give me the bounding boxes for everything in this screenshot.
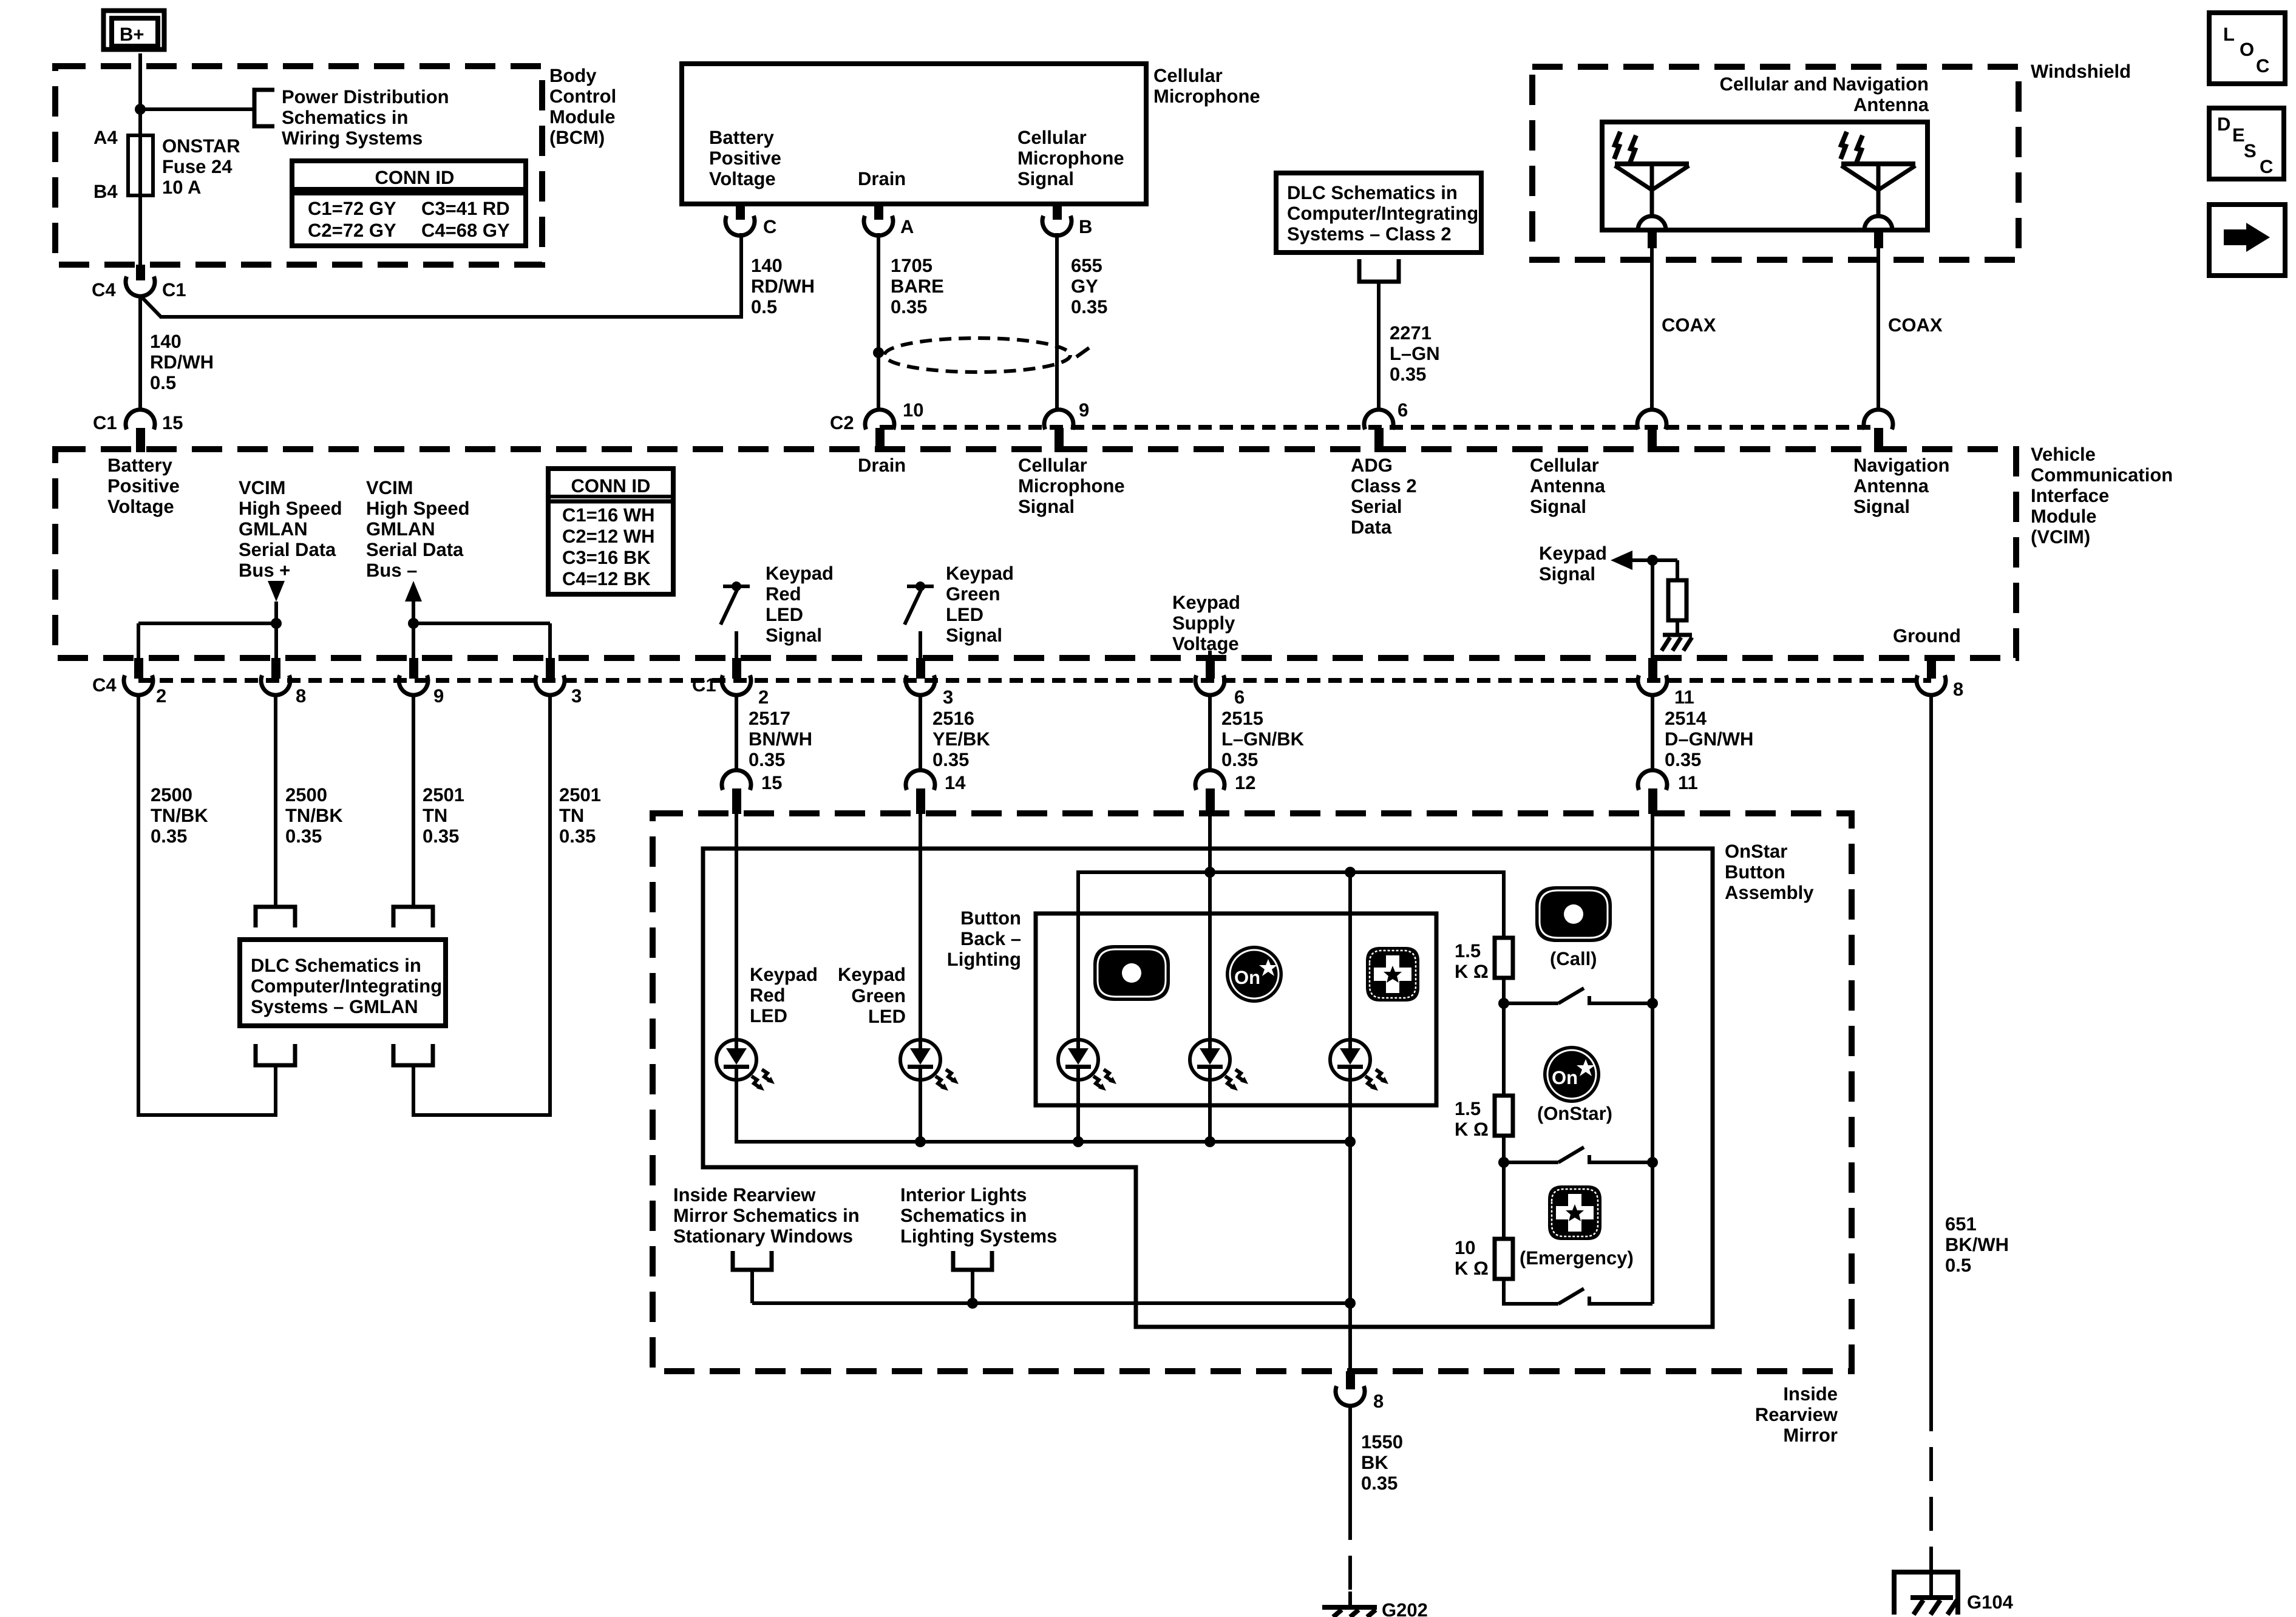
harness dotted line VCIM bottom row (138, 678, 1931, 683)
svg-text:2: 2 (758, 686, 769, 708)
exit bracket DLC gmlan right (393, 1044, 433, 1065)
svg-text:0.5: 0.5 (751, 296, 777, 317)
svg-text:C4: C4 (92, 279, 116, 300)
wire ADG class 2 serial data (1377, 282, 1381, 411)
svg-text:1.5: 1.5 (1455, 1098, 1481, 1119)
svg-text:140: 140 (150, 331, 182, 352)
junction dot backlight right (1345, 867, 1356, 878)
svg-text:VCIM: VCIM (239, 477, 286, 498)
connector pin 14 mirror (906, 770, 935, 814)
wire 2500 TN/BK pin8 (274, 694, 277, 907)
connector pin 9 (bus minus) (399, 658, 428, 695)
keypad signal arrow (1611, 551, 1632, 570)
svg-text:Antenna: Antenna (1853, 475, 1929, 497)
wire backlight LED returns (1078, 1080, 1350, 1142)
wire mirror schematics exit (750, 1270, 754, 1303)
VCIM dashed box (55, 449, 2016, 658)
junction dot onstar common (1647, 1157, 1658, 1168)
svg-text:0.35: 0.35 (151, 825, 187, 847)
svg-text:CONN ID: CONN ID (571, 475, 651, 497)
svg-text:Signal: Signal (1853, 496, 1910, 517)
wire 2501 TN pin9 (412, 694, 415, 907)
call button icon (1535, 886, 1612, 942)
svg-text:Signal: Signal (1017, 168, 1074, 189)
svg-text:10: 10 (1455, 1237, 1475, 1258)
wire onstar node to R3 (1502, 1162, 1506, 1239)
svg-text:Keypad: Keypad (766, 563, 834, 584)
button back lighting box (1036, 914, 1436, 1105)
svg-text:Computer/Integrating: Computer/Integrating (251, 975, 442, 997)
backlight onstar button icon (1226, 946, 1283, 1003)
wire keypad signal (1632, 560, 1677, 658)
junction dot interior lights (967, 1298, 978, 1309)
wire label 2501 TN 0.35 (pin9) (423, 784, 464, 847)
svg-text:C4=68 GY: C4=68 GY (421, 220, 510, 241)
svg-text:B: B (1079, 216, 1092, 237)
svg-text:Keypad: Keypad (1539, 543, 1607, 564)
svg-text:Bus +: Bus + (239, 560, 290, 581)
svg-text:C1: C1 (93, 412, 117, 433)
svg-text:ONSTAR: ONSTAR (162, 135, 240, 157)
svg-text:1.5: 1.5 (1455, 940, 1481, 961)
svg-text:Signal: Signal (1539, 563, 1595, 585)
wire label 2516 YE/BK 0.35 (932, 708, 990, 770)
label Cellular Antenna Signal (1530, 455, 1606, 517)
junction dot drain shield (873, 347, 884, 358)
onstar switch (1504, 1147, 1652, 1162)
wire label 1705 BARE 0.35 (891, 255, 944, 317)
svg-text:Inside: Inside (1783, 1383, 1838, 1405)
wire feed to microphone pin C (160, 233, 741, 317)
svg-text:C4=12 BK: C4=12 BK (562, 568, 651, 589)
wire coax navigation (1877, 248, 1880, 411)
wire keypad green LED feed (919, 813, 922, 1040)
svg-text:K Ω: K Ω (1455, 1258, 1489, 1279)
svg-text:K Ω: K Ω (1455, 1119, 1489, 1140)
svg-text:BK/WH: BK/WH (1945, 1234, 2009, 1255)
DLC Schematics Class 2 box (1276, 173, 1481, 253)
label 1.5 K ohm (onstar) (1455, 1098, 1489, 1140)
svg-text:Serial: Serial (1351, 496, 1402, 517)
svg-text:A: A (900, 216, 914, 237)
label Power Distribution Schematics in Wiring Systems (282, 86, 449, 149)
svg-text:15: 15 (162, 412, 183, 433)
wire mic signal 655 GY (1055, 233, 1059, 411)
svg-text:DLC Schematics in: DLC Schematics in (1287, 182, 1458, 203)
wire down to VCIM pin 15 (138, 296, 142, 411)
svg-text:C: C (2256, 55, 2269, 76)
svg-text:Interface: Interface (2031, 485, 2109, 506)
label ADG Class 2 Serial Data (1351, 455, 1417, 538)
connector pin C microphone (725, 204, 755, 236)
svg-text:Battery: Battery (709, 127, 775, 148)
svg-text:LED: LED (946, 604, 983, 625)
ground G104 (1894, 1572, 1958, 1615)
label Navigation Antenna Signal (1853, 455, 1949, 517)
wire bus plus (274, 602, 278, 658)
emergency switch (1558, 1289, 1652, 1304)
svg-text:Lighting: Lighting (947, 949, 1021, 970)
backlight feed bus (1078, 872, 1504, 1040)
svg-text:Red: Red (750, 985, 786, 1006)
svg-text:TN: TN (559, 805, 584, 826)
svg-text:DLC Schematics in: DLC Schematics in (251, 955, 421, 976)
svg-text:0.35: 0.35 (749, 749, 785, 770)
label Battery Positive Voltage (VCIM) (107, 455, 180, 517)
wire keypad supply stubby (1208, 651, 1212, 658)
connector coax navigation VCIM (1864, 410, 1893, 452)
svg-text:G202: G202 (1382, 1599, 1428, 1617)
wire label 140 RD/WH 0.5 (mic feed) (751, 255, 815, 317)
label Vehicle Communication Interface Module VCIM (2031, 444, 2173, 547)
label Inside Rearview Mirror Schematics in Stationary Windows (673, 1184, 860, 1247)
svg-text:Supply: Supply (1172, 612, 1235, 634)
svg-text:Keypad: Keypad (1172, 592, 1240, 613)
wire keypad red to border (735, 631, 738, 658)
svg-text:6: 6 (1398, 399, 1408, 421)
svg-text:11: 11 (1674, 686, 1694, 708)
svg-text:Signal: Signal (766, 625, 822, 646)
junction dot onstar node (1498, 1157, 1509, 1168)
svg-text:Keypad: Keypad (838, 964, 906, 985)
svg-text:(BCM): (BCM) (549, 127, 605, 148)
svg-text:LED: LED (750, 1005, 787, 1026)
svg-text:C2=12 WH: C2=12 WH (562, 526, 654, 547)
svg-text:B+: B+ (120, 24, 144, 45)
entry bracket DLC gmlan left (256, 907, 295, 927)
svg-text:RD/WH: RD/WH (751, 276, 815, 297)
exit bracket mirror schematics (733, 1251, 772, 1270)
connector pin 11 mirror (1638, 770, 1667, 814)
wire keypad green to border (919, 631, 922, 658)
svg-text:Microphone: Microphone (1018, 475, 1125, 497)
keypad green LED driver switch (905, 581, 934, 625)
svg-text:C: C (763, 216, 776, 237)
exit bracket DLC class2 (1359, 259, 1399, 282)
wire label 1550 BK 0.35 (1361, 1431, 1403, 1494)
backlight call button icon (1093, 945, 1170, 1001)
LED backlight onstar (1190, 1040, 1248, 1091)
svg-text:S: S (2244, 140, 2257, 161)
svg-text:15: 15 (761, 772, 782, 793)
svg-text:0.35: 0.35 (1665, 749, 1701, 770)
svg-text:Serial Data: Serial Data (366, 539, 464, 560)
junction dot B+ node (135, 104, 146, 115)
wire bus minus (412, 602, 415, 658)
connector pin 15 mirror (722, 770, 751, 814)
cellular microphone box (682, 64, 1146, 204)
LOC nav box (2209, 13, 2285, 84)
svg-text:0.5: 0.5 (1945, 1255, 1971, 1276)
svg-text:Cellular and Navigation: Cellular and Navigation (1719, 73, 1929, 95)
svg-text:2500: 2500 (151, 784, 192, 805)
svg-text:L–GN/BK: L–GN/BK (1221, 728, 1305, 750)
svg-text:GMLAN: GMLAN (239, 518, 308, 540)
junction dot call common (1647, 998, 1658, 1009)
cellular and navigation antenna box (1602, 122, 1927, 230)
svg-text:A4: A4 (93, 127, 118, 148)
wire bus minus branch (413, 623, 550, 658)
svg-text:Schematics in: Schematics in (282, 107, 408, 128)
svg-text:0.35: 0.35 (932, 749, 969, 770)
svg-text:Drain: Drain (858, 455, 906, 476)
CONN ID table VCIM (548, 469, 673, 594)
svg-text:Back –: Back – (960, 928, 1021, 949)
svg-text:Inside Rearview: Inside Rearview (673, 1184, 816, 1205)
svg-text:Cellular: Cellular (1018, 455, 1087, 476)
label VCIM GMLAN Bus minus (366, 477, 470, 581)
label Cellular Microphone Signal (VCIM) (1018, 455, 1125, 517)
svg-text:10: 10 (903, 399, 923, 421)
svg-text:Windshield: Windshield (2031, 61, 2131, 82)
shield ellipse around drain and mic wires (885, 338, 1070, 372)
svg-text:11: 11 (1678, 772, 1698, 793)
wire 2515 L-GN/BK (1208, 694, 1212, 771)
svg-text:8: 8 (296, 685, 306, 707)
svg-text:(Call): (Call) (1550, 948, 1597, 969)
wire label 2501 TN 0.35 (pin3) (559, 784, 601, 847)
label OnStar Button Assembly (1725, 841, 1814, 903)
label Cellular and Navigation Antenna (1719, 73, 1929, 115)
svg-text:High Speed: High Speed (366, 498, 470, 519)
svg-text:1705: 1705 (891, 255, 932, 276)
junction dot keypad signal (1647, 555, 1658, 566)
svg-text:E: E (2232, 124, 2245, 146)
svg-text:D–GN/WH: D–GN/WH (1665, 728, 1753, 750)
connector pin 8 (bus plus) (261, 658, 290, 695)
call switch (1504, 988, 1652, 1003)
svg-text:Voltage: Voltage (107, 496, 174, 517)
LED return bus (736, 1080, 1350, 1303)
label Cellular Microphone (1153, 65, 1260, 107)
svg-text:Navigation: Navigation (1853, 455, 1949, 476)
svg-text:BARE: BARE (891, 276, 944, 297)
svg-text:6: 6 (1234, 686, 1245, 708)
svg-text:1550: 1550 (1361, 1431, 1403, 1453)
windshield dashed box (1532, 67, 2019, 260)
svg-text:Keypad: Keypad (750, 964, 818, 985)
svg-text:Voltage: Voltage (1172, 633, 1239, 654)
junction dot backlight mid (1204, 867, 1215, 878)
connector pin 3 keypad green (906, 658, 935, 695)
svg-text:High Speed: High Speed (239, 498, 342, 519)
svg-text:ADG: ADG (1351, 455, 1393, 476)
svg-text:G104: G104 (1967, 1592, 2014, 1613)
wire label 2271 L-GN 0.35 (1390, 322, 1440, 385)
svg-text:C: C (2260, 156, 2273, 177)
label Keypad Red LED (assembly) (750, 964, 818, 1026)
svg-text:Ground: Ground (1893, 625, 1961, 646)
svg-text:C3=16 BK: C3=16 BK (562, 547, 651, 568)
svg-text:12: 12 (1235, 772, 1255, 793)
svg-text:3: 3 (943, 686, 953, 708)
wire call node to R2 (1502, 1003, 1506, 1096)
connector pin 6 (1364, 410, 1393, 452)
svg-text:Serial Data: Serial Data (239, 539, 336, 560)
svg-text:Data: Data (1351, 517, 1392, 538)
svg-text:0.35: 0.35 (1071, 296, 1107, 317)
svg-text:Red: Red (766, 583, 801, 605)
svg-text:C3=41 RD: C3=41 RD (421, 198, 510, 219)
wire R2 to onstar node (1502, 1136, 1506, 1162)
svg-text:Vehicle: Vehicle (2031, 444, 2096, 465)
svg-text:Button: Button (960, 907, 1021, 929)
svg-text:9: 9 (433, 685, 444, 707)
svg-text:0.35: 0.35 (891, 296, 927, 317)
connector pin 11 keypad signal (1638, 658, 1667, 695)
connector C1 pin 15 (126, 410, 155, 452)
svg-text:Antenna: Antenna (1853, 94, 1929, 115)
connector coax cellular VCIM (1637, 410, 1666, 452)
svg-text:2516: 2516 (932, 708, 974, 729)
svg-text:Stationary Windows: Stationary Windows (673, 1225, 853, 1247)
svg-text:140: 140 (751, 255, 783, 276)
wire label 2500 TN/BK 0.35 (pin8) (285, 784, 343, 847)
wire bus plus branch (138, 623, 276, 658)
svg-text:TN: TN (423, 805, 447, 826)
onstar button icon (1543, 1046, 1600, 1103)
label Interior Lights Schematics in Lighting Systems (900, 1184, 1057, 1247)
wire backlight LED3 riser (1348, 872, 1352, 1040)
svg-text:C1: C1 (692, 674, 716, 696)
wire 2500 TN/BK pin2 (138, 694, 276, 1115)
wire label 655 GY 0.35 (1071, 255, 1107, 317)
svg-text:TN/BK: TN/BK (285, 805, 343, 826)
wire 1550 BK to ground (1348, 1592, 1352, 1607)
svg-text:O: O (2240, 39, 2254, 60)
svg-text:Green: Green (946, 583, 1000, 605)
connector pin 3 (bus minus) (535, 658, 565, 695)
connector C2 pin 10 (865, 410, 894, 452)
svg-text:(Emergency): (Emergency) (1520, 1247, 1634, 1269)
svg-text:Voltage: Voltage (709, 168, 776, 189)
svg-text:COAX: COAX (1662, 314, 1716, 336)
svg-text:K Ω: K Ω (1455, 961, 1489, 982)
svg-text:C4: C4 (92, 674, 117, 696)
svg-text:2: 2 (156, 685, 166, 707)
harness dotted line VCIM top row (880, 425, 1878, 430)
svg-text:0.35: 0.35 (285, 825, 322, 847)
wire label 2517 BN/WH 0.35 (749, 708, 812, 770)
svg-text:COAX: COAX (1888, 314, 1943, 336)
ground internal VCIM (1662, 635, 1692, 651)
svg-text:Class 2: Class 2 (1351, 475, 1417, 497)
svg-text:Schematics in: Schematics in (900, 1205, 1027, 1226)
junction dot bus plus (271, 618, 282, 629)
connector C4-C1 at BCM output (126, 265, 155, 296)
junction dot call node (1498, 998, 1509, 1009)
wire diagonal from C4-C1 (140, 296, 161, 317)
svg-text:BK: BK (1361, 1452, 1388, 1473)
wire to power distribution reference (140, 107, 254, 111)
BCM dashed box (55, 66, 542, 265)
svg-text:L: L (2223, 24, 2235, 45)
svg-text:CONN ID: CONN ID (375, 167, 455, 188)
svg-text:Microphone: Microphone (1017, 147, 1124, 169)
svg-text:OnStar: OnStar (1725, 841, 1787, 862)
wire coax cellular (1650, 248, 1654, 411)
wire 2501 TN pin3 (413, 694, 550, 1115)
svg-text:10 A: 10 A (162, 177, 201, 198)
emergency button icon (1548, 1185, 1601, 1240)
svg-text:Rearview: Rearview (1755, 1404, 1838, 1425)
svg-text:LED: LED (766, 604, 803, 625)
svg-text:2515: 2515 (1221, 708, 1263, 729)
svg-text:2501: 2501 (423, 784, 464, 805)
svg-text:3: 3 (571, 685, 582, 707)
svg-text:Communication: Communication (2031, 464, 2173, 486)
LED keypad green (900, 1040, 959, 1091)
connector antenna cellular at box bottom (1638, 216, 1666, 248)
svg-text:Assembly: Assembly (1725, 882, 1814, 903)
exit bracket interior lights (953, 1251, 992, 1270)
junction dot bus minus (408, 618, 419, 629)
wire label 2514 D-GN/WH 0.35 (1665, 708, 1753, 770)
svg-text:Signal: Signal (1530, 496, 1586, 517)
connector C1 pin 2 keypad red (722, 658, 751, 695)
svg-text:Positive: Positive (107, 475, 180, 497)
svg-text:Drain: Drain (858, 168, 906, 189)
wire label 2500 TN/BK 0.35 (pin2) (151, 784, 208, 847)
svg-text:C2=72 GY: C2=72 GY (308, 220, 396, 241)
resistor 1.5K call (1495, 938, 1513, 978)
OnStar button assembly outline box (703, 849, 1713, 1327)
wire label 140 RD/WH 0.5 (VCIM feed) (150, 331, 214, 393)
ground return bus bottom (752, 1301, 1350, 1305)
wire green LED return (919, 1080, 922, 1142)
label VCIM GMLAN Bus plus (239, 477, 342, 581)
svg-text:Signal: Signal (946, 625, 1002, 646)
label Button Back Lighting (947, 907, 1021, 970)
svg-text:14: 14 (945, 772, 966, 793)
power symbol B+ (104, 11, 165, 50)
wire 2517 BN/WH (735, 694, 738, 771)
svg-text:0.35: 0.35 (1221, 749, 1258, 770)
svg-text:2517: 2517 (749, 708, 790, 729)
svg-text:L–GN: L–GN (1390, 343, 1440, 364)
svg-text:Microphone: Microphone (1153, 86, 1260, 107)
wire label 2515 L-GN/BK 0.35 (1221, 708, 1305, 770)
svg-text:C1: C1 (162, 279, 186, 300)
svg-text:Cellular: Cellular (1153, 65, 1223, 86)
connector pin 8 mirror bottom (1336, 1371, 1365, 1406)
wire 651 BK/WH dashed (1929, 1397, 1933, 1573)
svg-text:2271: 2271 (1390, 322, 1432, 344)
label 1.5 K ohm (call) (1455, 940, 1489, 982)
svg-text:655: 655 (1071, 255, 1102, 276)
svg-text:GMLAN: GMLAN (366, 518, 435, 540)
svg-text:Battery: Battery (107, 455, 173, 476)
svg-text:Antenna: Antenna (1530, 475, 1606, 497)
svg-text:C1=72 GY: C1=72 GY (308, 198, 396, 219)
svg-text:B4: B4 (93, 181, 118, 202)
svg-text:(VCIM): (VCIM) (2031, 526, 2090, 547)
label Keypad Signal (1539, 543, 1607, 585)
svg-text:8: 8 (1373, 1391, 1384, 1412)
wire 651 to ground (1929, 1573, 1933, 1598)
svg-text:8: 8 (1953, 679, 1963, 700)
svg-text:0.35: 0.35 (559, 825, 596, 847)
label ONSTAR Fuse 24 10 A (162, 135, 240, 198)
antenna navigation symbol (1841, 132, 1915, 217)
label 10 K ohm (emergency) (1455, 1237, 1489, 1279)
svg-text:Systems – Class 2: Systems – Class 2 (1287, 223, 1452, 245)
svg-text:9: 9 (1079, 399, 1089, 421)
connector pin 12 mirror (1195, 770, 1224, 814)
wire keypad signal feed (1651, 813, 1654, 1304)
wire B+ through fuse to BCM bottom (138, 53, 142, 265)
svg-text:RD/WH: RD/WH (150, 351, 214, 373)
